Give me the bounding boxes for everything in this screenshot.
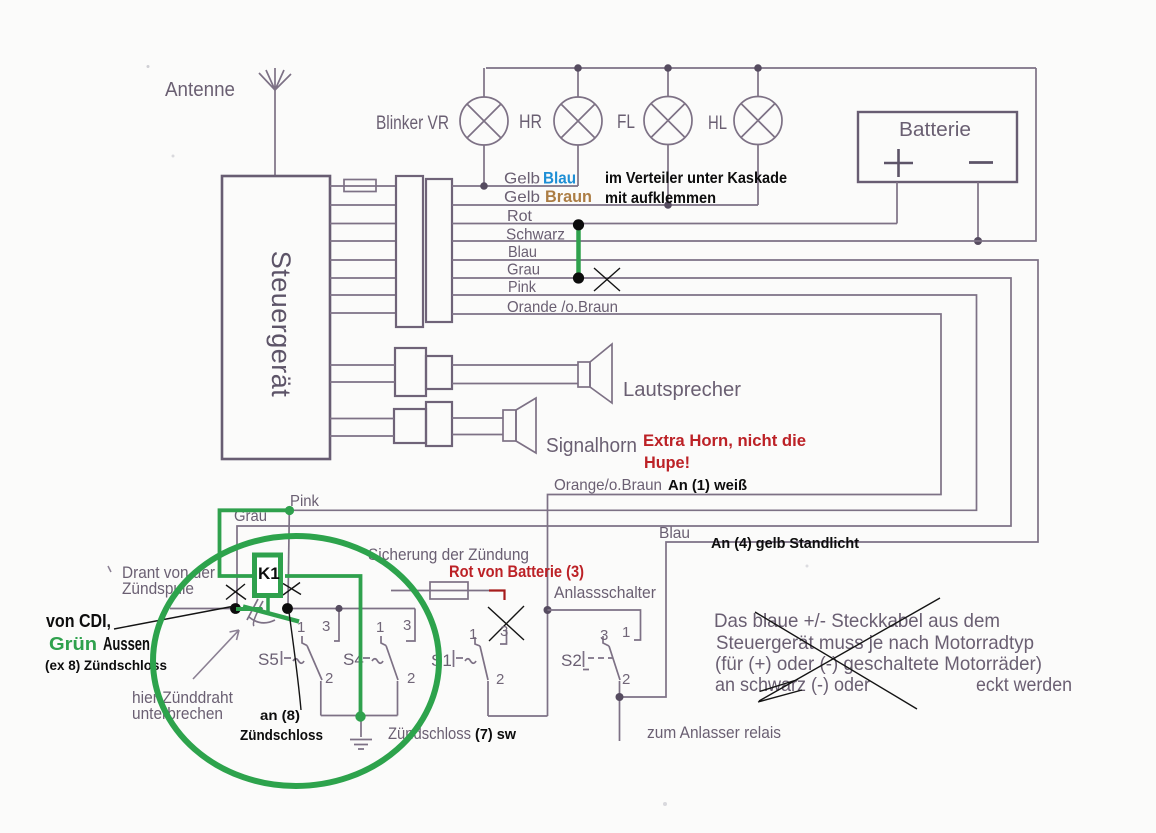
fuse F1 on Gelb Blau wire [330,185,396,187]
ignition fuse wire [391,590,489,592]
svg-text:Batterie: Batterie [899,119,971,141]
original contact marks [247,599,275,626]
wire Schwarz to battery minus and lamp bus [452,68,1036,241]
wire Orande down right side through Anlassschalter bus [452,314,941,716]
lamp FL [644,68,692,205]
faint speck [663,802,667,806]
junction dot Anlassschalter bus [544,606,552,614]
switch S1 [454,637,489,716]
green jumper Rot-Grau [576,225,581,278]
junction dots on lamp bus [574,64,582,72]
svg-text:1: 1 [622,624,630,641]
wire S5 pin2 to S4 pin2 with ground [321,715,398,717]
svg-text:Gelb: Gelb [504,171,540,188]
svg-text:3: 3 [500,623,508,640]
svg-text:Orande /o.Braun: Orande /o.Braun [507,299,618,316]
svg-text:Blau: Blau [543,169,576,188]
wires control unit to connector [330,205,396,313]
horn connector [394,409,426,443]
grey arrow [193,630,239,679]
lamp Blinker VR [460,68,508,186]
svg-text:S2: S2 [561,651,582,670]
pointer line dot to an (8) [289,612,301,710]
battery plus terminal [884,149,913,177]
svg-text:Signalhorn: Signalhorn [546,435,637,457]
svg-text:HR: HR [519,112,542,133]
svg-text:Blau: Blau [659,525,690,542]
wire S1 pin2 to Orande vertical [488,715,548,717]
green dot on Pink wire [285,506,294,515]
svg-text:1: 1 [469,626,477,643]
svg-text:unterbrechen: unterbrechen [132,704,223,723]
main ignition wire [170,608,415,610]
svg-text:FL: FL [617,112,635,133]
svg-text:Zündschloss: Zündschloss [240,727,323,744]
wire battery minus to Schwarz [977,182,979,241]
junction dot S2 pin2 [616,693,624,701]
svg-text:3: 3 [322,618,330,635]
fuse Sicherung der Zündung [430,582,468,599]
wire Pink down right side [292,295,977,510]
battery [858,112,1017,182]
svg-text:Blau: Blau [508,244,537,261]
svg-text:Zündschloss: Zündschloss [388,724,471,743]
connector block X1 [396,176,423,327]
svg-text:3: 3 [403,617,411,634]
X mark right dot [283,583,301,596]
svg-text:zum Anlasser relais: zum Anlasser relais [647,723,781,742]
svg-text:An (1) weiß: An (1) weiß [668,477,747,494]
svg-text:eckt werden: eckt werden [976,674,1072,696]
svg-text:Extra Horn, nicht die: Extra Horn, nicht die [643,431,806,450]
svg-text:Rot von Batterie (3): Rot von Batterie (3) [449,562,584,581]
svg-text:HL: HL [708,113,727,134]
battery minus terminal [969,161,993,164]
svg-text:S5: S5 [258,650,279,669]
svg-text:mit aufklemmen: mit aufklemmen [605,190,716,207]
svg-text:Aussen: Aussen [103,634,150,654]
svg-text:1: 1 [376,619,384,636]
svg-text:2: 2 [325,670,333,687]
speaker connector [395,348,426,396]
svg-text:Hupe!: Hupe! [644,453,690,472]
black junction dot left [230,603,241,614]
switch S4 pin3 stub from main wire corner [406,609,415,642]
wire Gelb Braun [452,204,758,206]
wire battery plus to Rot [896,182,898,224]
wire Rot to battery plus [452,223,897,225]
antenna [259,68,291,176]
red wire from battery (3) [489,591,505,601]
signal horn [503,410,516,441]
svg-text:von CDI,: von CDI, [46,611,111,631]
switch S5 [282,636,323,716]
ground symbol [350,717,372,750]
relay K1 [255,555,281,596]
svg-text:im Verteiler unter Kaskade: im Verteiler unter Kaskade [605,170,787,187]
relay K1 green wire to ground node [285,576,361,714]
svg-text:Grau: Grau [507,262,540,279]
relay K1 green wire to Pink [220,510,290,576]
svg-text:2: 2 [496,671,504,688]
speaker wires [330,365,578,384]
horn wires [330,418,503,436]
switch S2 [583,636,620,696]
wire Grau down right side [237,278,1011,605]
svg-text:2: 2 [622,671,630,688]
label Drant von der Zündspule [108,566,111,572]
green dot on ground wire [355,711,365,721]
black junction dot right [282,603,293,614]
X cross-out lines over text block [755,598,940,709]
svg-text:Lautsprecher: Lautsprecher [623,379,741,401]
svg-text:Blinker VR: Blinker VR [376,113,449,134]
top lamp bus wire [486,67,1036,69]
X mark beside jumper [594,268,620,291]
loudspeaker [578,362,590,387]
svg-text:Pink: Pink [290,493,320,510]
svg-text:Schwarz: Schwarz [506,227,565,244]
svg-text:K1: K1 [258,564,280,583]
switch S5 pin3 stub [334,609,339,642]
svg-text:(7) sw: (7) sw [475,726,516,743]
green highlight ellipse [153,536,439,786]
control unit Steuergerät [222,176,330,459]
X mark left dot [226,584,246,600]
svg-text:(ex 8) Zündschloss: (ex 8) Zündschloss [45,657,167,673]
wire Blau down right side to S2 [452,260,1038,741]
wire Pink drop to main wire [288,513,289,605]
svg-text:an (8): an (8) [260,707,300,723]
switch S1 pin3 bracket [500,630,507,644]
pointer line von CDI to dot [114,607,232,630]
wire Gelb Blau [452,185,578,187]
svg-text:3: 3 [600,627,608,644]
svg-text:Orange/o.Braun: Orange/o.Braun [554,477,662,494]
svg-text:2: 2 [407,670,415,687]
svg-text:Braun: Braun [545,187,592,206]
lamp HR [554,68,602,186]
svg-text:Gelb: Gelb [504,189,540,206]
svg-text:Pink: Pink [508,279,537,296]
switch S4 [361,636,399,716]
svg-text:Steuergerät: Steuergerät [266,251,296,398]
svg-text:An (4) gelb Standlicht: An (4) gelb Standlicht [711,535,859,552]
svg-text:Anlassschalter: Anlassschalter [554,583,656,602]
green relay contact stroke [243,607,299,622]
connector block X2 [426,179,452,322]
svg-text:Grün: Grün [49,634,97,654]
Anlassschalter bus wire [548,610,641,640]
svg-text:Rot: Rot [507,208,533,225]
lamp HL [734,68,782,205]
svg-text:(für (+) oder (-) geschaltete: (für (+) oder (-) geschaltete Motorräder… [715,653,1042,675]
X mark over S1 pin3 connection [488,606,524,641]
svg-text:Antenne: Antenne [165,79,235,101]
